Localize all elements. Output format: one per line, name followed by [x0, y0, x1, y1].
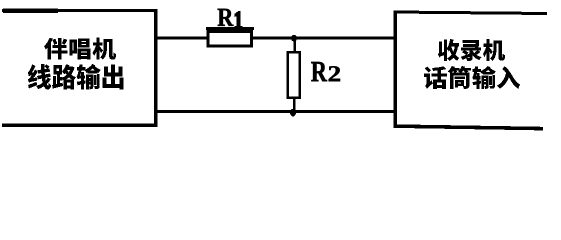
wire: R2 bottom lead — [293, 98, 296, 111]
box: recorder microphone input (收录机 话筒输入) — [394, 11, 548, 131]
label text 话筒输入 (line 2 of right box) — [424, 66, 520, 89]
label text 线路输出 (line 2 of left box) — [28, 64, 124, 89]
label R2 — [311, 62, 340, 81]
wire: left box to R1 (top) — [155, 37, 208, 40]
resistor R1 (series, rectangle body) — [208, 32, 252, 47]
wire: R2 top lead — [293, 39, 296, 53]
label text 伴唱机 (line 1 of left box) — [44, 38, 116, 60]
label text 收录机 (line 1 of right box) — [438, 39, 505, 61]
box: karaoke machine line output (伴唱机 线路输出) — [2, 8, 158, 127]
node B: junction dot of R2 with bottom wire — [290, 109, 296, 117]
node A: junction dot of R2 with top wire — [291, 35, 297, 41]
label R1 — [218, 9, 242, 28]
wire: R1 to right box (top), passes node A — [253, 37, 395, 40]
resistor R2 (shunt, rectangle body) — [288, 52, 300, 97]
wire: bottom return, left box to right box — [155, 110, 395, 113]
underline below label R1 — [206, 27, 254, 30]
